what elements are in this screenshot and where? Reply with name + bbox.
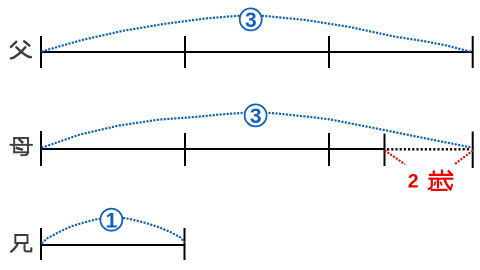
mother tick left <box>40 131 42 166</box>
mother tick 2 <box>184 133 186 166</box>
mother solid line <box>41 148 385 150</box>
red dotted left segment <box>385 150 405 164</box>
brother blue dotted arc <box>42 217 185 243</box>
red label 歳 (years old) <box>429 171 452 190</box>
label 父 (father) <box>11 41 31 58</box>
mother black dotted line <box>387 148 471 150</box>
mother tick right <box>472 132 474 169</box>
father line <box>41 51 473 53</box>
father tick right <box>472 36 474 68</box>
brother tick right <box>184 228 186 260</box>
father blue dotted arc <box>42 15 472 52</box>
svg-text:3: 3 <box>250 105 262 128</box>
circled 3 (father) <box>240 8 262 32</box>
label 母 (mother) <box>11 138 32 155</box>
brother line <box>41 244 185 246</box>
mother tick 4 <box>384 134 386 167</box>
brother tick left <box>40 228 42 260</box>
father tick 2 <box>184 36 186 68</box>
mother tick 3 <box>328 133 330 166</box>
label 兄 (older brother) <box>11 235 31 252</box>
father tick left <box>40 36 42 68</box>
svg-text:1: 1 <box>106 209 118 232</box>
father tick 3 <box>328 36 330 68</box>
red dotted right segment <box>455 150 474 164</box>
mother blue dotted arc <box>42 112 472 148</box>
circled 3 (mother) <box>245 104 267 128</box>
circled 1 (brother) <box>100 209 122 233</box>
svg-text:3: 3 <box>245 9 257 32</box>
svg-text:2: 2 <box>408 170 419 192</box>
